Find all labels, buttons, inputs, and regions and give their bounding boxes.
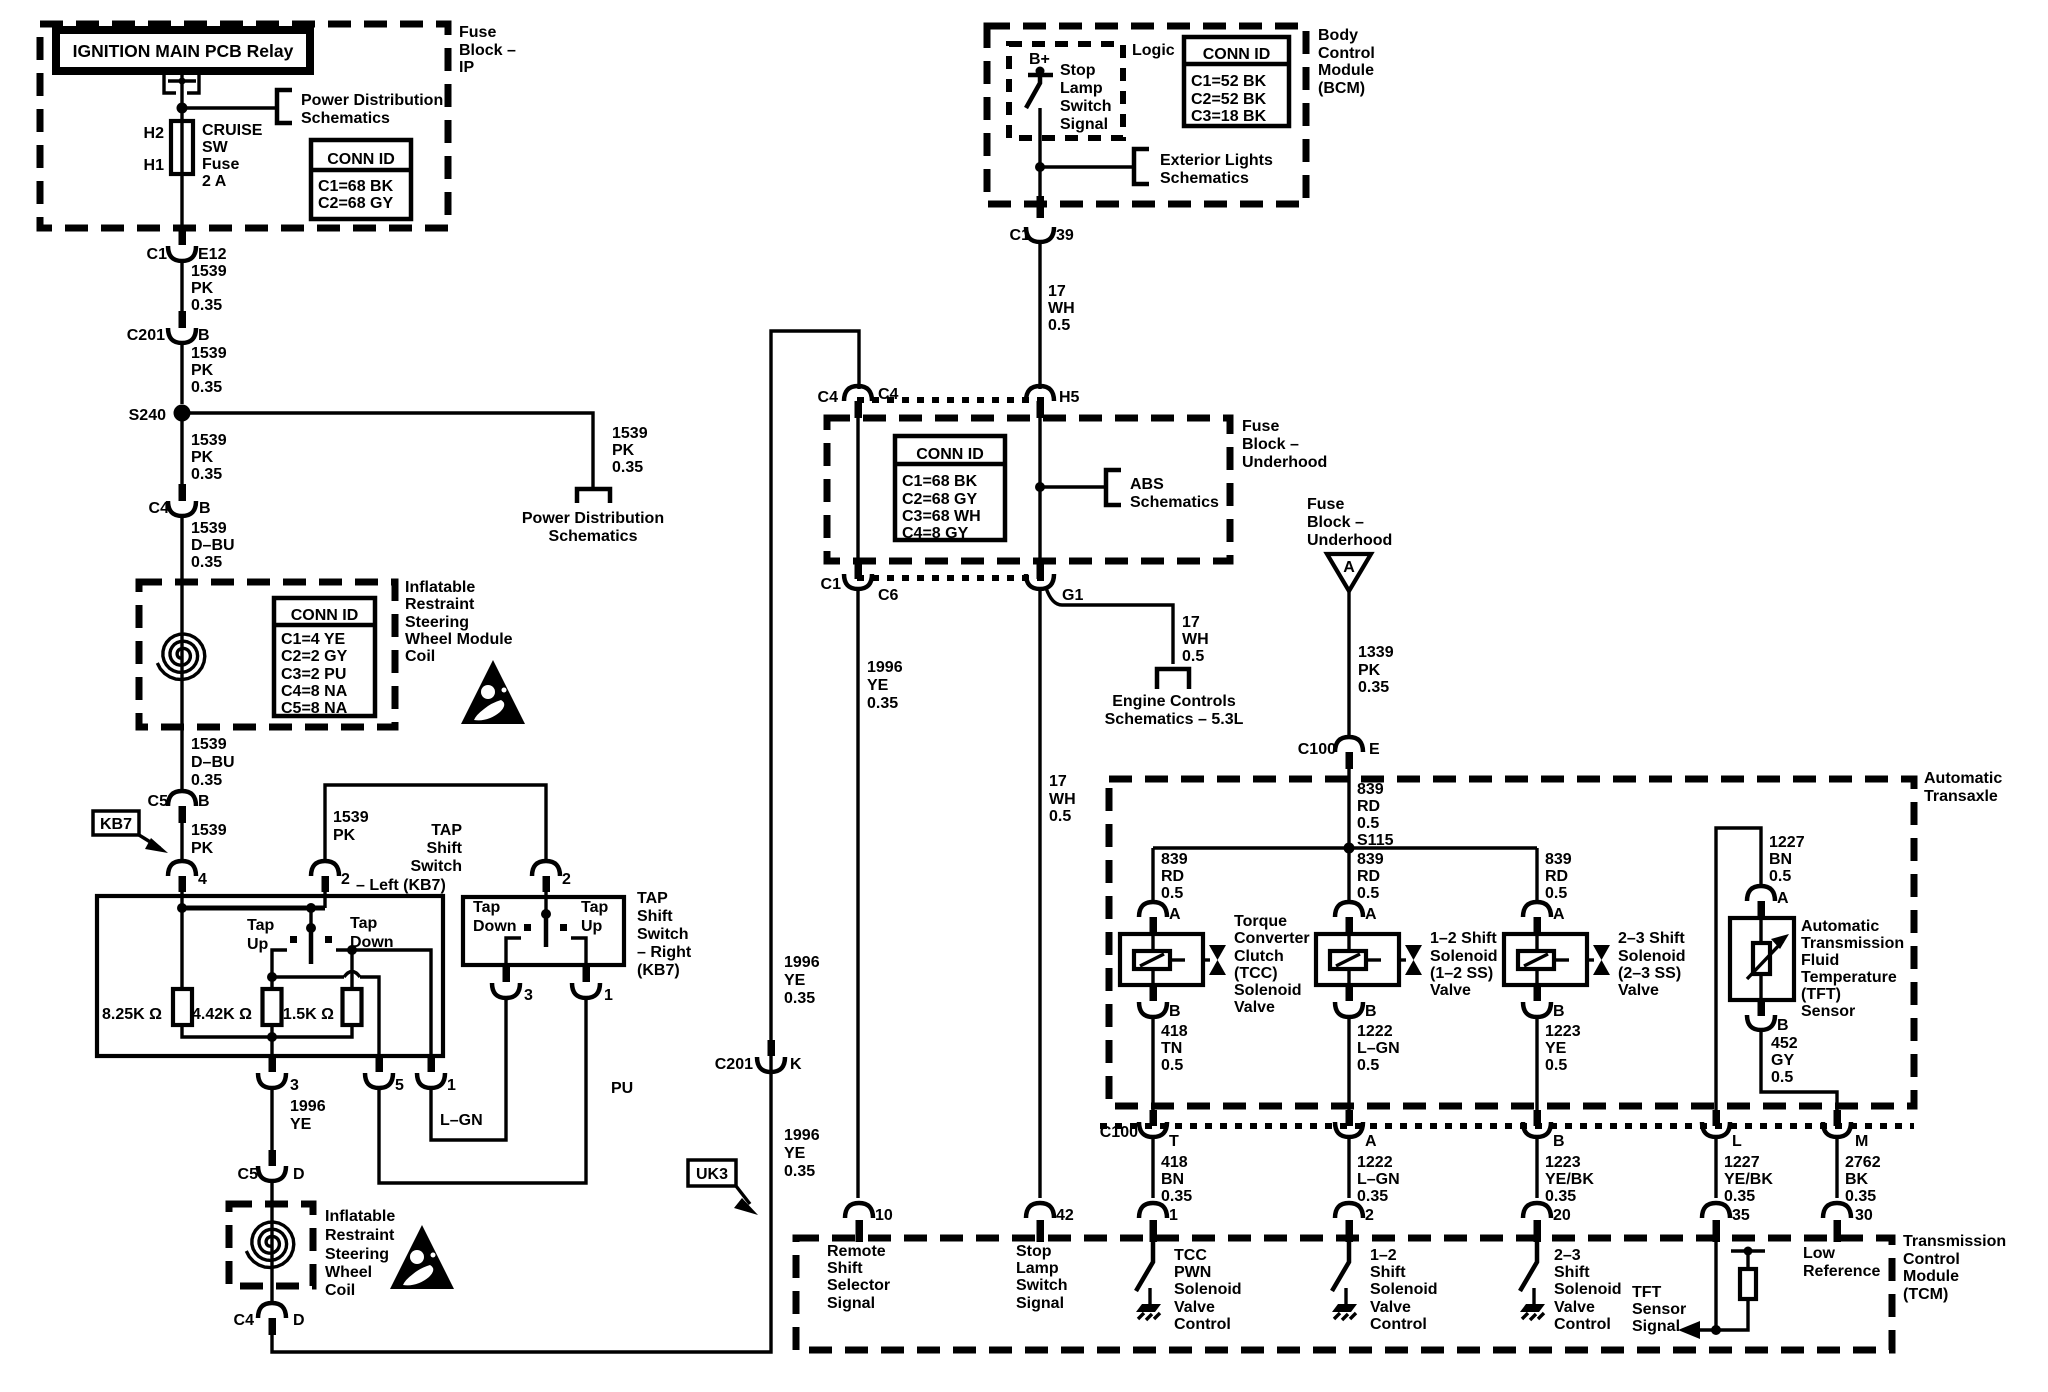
svg-text:RD: RD <box>1357 868 1380 885</box>
svg-text:CONN ID: CONN ID <box>327 151 395 168</box>
svg-text:Transmission: Transmission <box>1903 1233 2006 1250</box>
svg-text:0.5: 0.5 <box>1769 868 1791 885</box>
svg-text:1539: 1539 <box>191 736 227 753</box>
svg-text:– Right: – Right <box>637 944 692 961</box>
svg-text:Fuse: Fuse <box>1242 418 1279 435</box>
junction node <box>177 103 188 114</box>
connector pin B (2-3) <box>1534 985 1542 1001</box>
connector pin B (TFT) <box>1758 1000 1766 1016</box>
svg-text:Lamp: Lamp <box>1016 1260 1059 1277</box>
svg-text:C1=52 BK: C1=52 BK <box>1191 73 1267 90</box>
svg-text:(2–3 SS): (2–3 SS) <box>1618 965 1681 982</box>
svg-text:1539: 1539 <box>191 822 227 839</box>
wire label 1539 PK 0.35 <box>180 342 183 404</box>
svg-text:A: A <box>1777 890 1789 907</box>
svg-text:1996: 1996 <box>867 659 903 676</box>
svg-text:C100: C100 <box>1298 741 1336 758</box>
svg-text:0.5: 0.5 <box>1048 317 1070 334</box>
svg-text:D–BU: D–BU <box>191 754 235 771</box>
wire PU left pin5 to right pin1 <box>379 997 586 1183</box>
svg-text:C4: C4 <box>878 386 899 403</box>
svg-text:PK: PK <box>1358 662 1381 679</box>
TFT thermistor <box>1753 943 1770 974</box>
svg-text:A: A <box>1365 906 1377 923</box>
svg-text:10: 10 <box>875 1207 893 1224</box>
svg-text:17: 17 <box>1049 773 1067 790</box>
svg-text:C201: C201 <box>127 327 165 344</box>
svg-text:1–2 Shift: 1–2 Shift <box>1430 930 1497 947</box>
SIR warning triangle (lower) <box>390 1225 454 1289</box>
svg-text:Switch: Switch <box>1016 1277 1068 1294</box>
svg-text:Lamp: Lamp <box>1060 80 1103 97</box>
fuse F1 CRUISE SW 2A <box>171 121 193 174</box>
exterior lights schematics bracket <box>1134 149 1149 184</box>
svg-text:1227: 1227 <box>1724 1154 1760 1171</box>
wire label 17 WH 0.5 <box>1038 241 1041 389</box>
connector pin 1 <box>1139 1203 1167 1218</box>
svg-text:Coil: Coil <box>405 648 435 665</box>
svg-text:YE: YE <box>867 677 889 694</box>
svg-text:Remote: Remote <box>827 1243 886 1260</box>
SIR coil dashed box (lower) <box>229 1204 313 1286</box>
svg-text:1227: 1227 <box>1769 834 1805 851</box>
svg-text:IGNITION MAIN PCB Relay: IGNITION MAIN PCB Relay <box>73 41 294 61</box>
svg-text:KB7: KB7 <box>100 816 132 833</box>
stop lamp switch <box>1026 75 1040 108</box>
svg-text:Underhood: Underhood <box>1242 454 1327 471</box>
svg-text:0.5: 0.5 <box>1182 648 1204 665</box>
svg-text:1: 1 <box>604 987 613 1004</box>
svg-text:B: B <box>198 793 210 810</box>
svg-text:1996: 1996 <box>784 954 820 971</box>
svg-text:Control: Control <box>1554 1316 1611 1333</box>
connector C5 pin B <box>180 727 183 792</box>
svg-text:1339: 1339 <box>1358 644 1394 661</box>
svg-text:BN: BN <box>1769 851 1792 868</box>
svg-text:RD: RD <box>1161 868 1184 885</box>
svg-text:D–BU: D–BU <box>191 537 235 554</box>
connector pin 35 <box>1702 1203 1730 1218</box>
svg-text:Body: Body <box>1318 27 1358 44</box>
svg-text:C3=18 BK: C3=18 BK <box>1191 108 1267 125</box>
svg-text:Signal: Signal <box>827 1295 875 1312</box>
ground (TCC driver) <box>1136 1288 1161 1320</box>
wire to 1-2 solenoid <box>1347 848 1350 904</box>
svg-text:K: K <box>790 1056 802 1073</box>
svg-text:0.5: 0.5 <box>1161 1057 1183 1074</box>
svg-text:Signal: Signal <box>1016 1295 1064 1312</box>
svg-text:4.42K Ω: 4.42K Ω <box>192 1006 252 1023</box>
svg-text:C5=8 NA: C5=8 NA <box>281 700 348 717</box>
svg-text:H5: H5 <box>1059 389 1080 406</box>
engine controls schematics bracket <box>1157 669 1189 689</box>
SIR coil module dashed box <box>139 582 395 727</box>
svg-text:1: 1 <box>447 1077 456 1094</box>
svg-text:C1=4 YE: C1=4 YE <box>281 631 346 648</box>
svg-text:B: B <box>198 327 210 344</box>
svg-text:1539: 1539 <box>191 263 227 280</box>
splice node S240 <box>174 405 191 422</box>
svg-text:C4: C4 <box>149 500 170 517</box>
svg-text:RD: RD <box>1545 868 1568 885</box>
svg-text:B: B <box>1553 1133 1565 1150</box>
svg-text:Valve: Valve <box>1554 1299 1595 1316</box>
fuse block underhood dashed box <box>827 418 1230 561</box>
svg-text:Valve: Valve <box>1234 999 1275 1016</box>
steering wheel module coil spiral <box>157 634 205 680</box>
wire G1 branch to engine controls <box>1046 588 1173 664</box>
svg-text:CRUISE: CRUISE <box>202 122 263 139</box>
svg-text:17: 17 <box>1182 614 1200 631</box>
wire 1222 L-GN 0.5 <box>1347 1016 1350 1110</box>
svg-text:C3=68 WH: C3=68 WH <box>902 508 981 525</box>
svg-text:CONN ID: CONN ID <box>291 607 359 624</box>
connector pin 4 (tap shift switch left) <box>168 861 196 876</box>
svg-text:Tap: Tap <box>581 899 608 916</box>
1-2 driver switch <box>1332 1242 1349 1291</box>
connector pin 20 <box>1523 1203 1551 1218</box>
2-3 shift solenoid valve <box>1504 934 1610 985</box>
svg-text:C1: C1 <box>147 246 168 263</box>
svg-text:Converter: Converter <box>1234 930 1310 947</box>
connector pin 42 <box>1026 1203 1054 1218</box>
svg-text:Restraint: Restraint <box>405 596 475 613</box>
svg-text:30: 30 <box>1855 1207 1873 1224</box>
svg-text:Valve: Valve <box>1370 1299 1411 1316</box>
tap shift switch right box <box>463 897 624 965</box>
svg-text:Shift: Shift <box>637 908 673 925</box>
svg-text:Control: Control <box>1174 1316 1231 1333</box>
svg-text:YE/BK: YE/BK <box>1724 1171 1773 1188</box>
svg-text:Inflatable: Inflatable <box>325 1208 395 1225</box>
wire through coil <box>270 1180 273 1304</box>
wire L-GN left pin1 to right pin3 <box>431 997 506 1140</box>
wire 418 TN 0.5 <box>1151 1016 1154 1110</box>
svg-text:WH: WH <box>1049 791 1076 808</box>
svg-text:SW: SW <box>202 139 229 156</box>
svg-text:Automatic: Automatic <box>1801 918 1879 935</box>
connector H5 <box>1026 386 1054 401</box>
svg-text:452: 452 <box>1771 1035 1798 1052</box>
ground (1-2 driver) <box>1332 1288 1357 1320</box>
wire pin3 down 1996 YE <box>270 1087 273 1155</box>
svg-text:5: 5 <box>395 1077 404 1094</box>
svg-text:1.5K Ω: 1.5K Ω <box>283 1006 334 1023</box>
svg-text:2: 2 <box>1365 1207 1374 1224</box>
svg-text:1539: 1539 <box>191 345 227 362</box>
svg-text:0.35: 0.35 <box>191 772 222 789</box>
svg-text:C2=2 GY: C2=2 GY <box>281 648 348 665</box>
svg-text:T: T <box>1169 1133 1179 1150</box>
resistor bottom bus <box>182 1025 352 1068</box>
svg-text:C1=68 BK: C1=68 BK <box>318 178 394 195</box>
connector pin 5 (left switch) <box>376 1056 384 1072</box>
power distribution schematics bracket <box>277 90 292 123</box>
svg-text:B: B <box>199 500 211 517</box>
svg-text:Schematics: Schematics <box>301 110 390 127</box>
svg-text:IP: IP <box>459 59 474 76</box>
TFT sensor signal arrow <box>1697 1328 1716 1331</box>
svg-text:C100: C100 <box>1100 1124 1138 1141</box>
svg-text:0.35: 0.35 <box>191 297 222 314</box>
svg-text:Stop: Stop <box>1060 62 1096 79</box>
relay K1 IGNITION MAIN PCB Relay title box <box>56 30 310 71</box>
svg-text:Coil: Coil <box>325 1282 355 1299</box>
svg-text:D: D <box>293 1166 305 1183</box>
svg-text:Wheel Module: Wheel Module <box>405 631 513 648</box>
1-2 shift solenoid valve <box>1316 934 1422 985</box>
svg-text:Steering: Steering <box>325 1246 389 1263</box>
tap down stationary contact <box>336 950 431 1068</box>
svg-text:Block –: Block – <box>1307 514 1364 531</box>
svg-text:39: 39 <box>1056 227 1074 244</box>
svg-text:8.25K Ω: 8.25K Ω <box>102 1006 162 1023</box>
tap up stationary contact <box>272 950 287 977</box>
svg-text:Control: Control <box>1903 1251 1960 1268</box>
wire C4 through box <box>856 410 859 563</box>
svg-text:839: 839 <box>1545 851 1572 868</box>
svg-text:1539: 1539 <box>191 432 227 449</box>
svg-text:0.5: 0.5 <box>1545 885 1567 902</box>
svg-text:C1: C1 <box>821 576 842 593</box>
svg-text:L: L <box>1732 1133 1742 1150</box>
svg-text:Shift: Shift <box>1370 1264 1406 1281</box>
node: tap up to 4.42K and pin5 line with hop over <box>267 972 277 982</box>
connector pin B (TCC) <box>1150 985 1158 1001</box>
svg-text:C1: C1 <box>1010 227 1031 244</box>
svg-text:0.5: 0.5 <box>1545 1057 1567 1074</box>
wire C4-D to riser <box>272 331 859 1352</box>
svg-text:PK: PK <box>333 827 356 844</box>
connector C1 pin C6 <box>855 563 863 579</box>
wire loop 1227 BN <box>1716 828 1761 1110</box>
svg-text:2–3 Shift: 2–3 Shift <box>1618 930 1685 947</box>
svg-text:L–GN: L–GN <box>1357 1171 1400 1188</box>
svg-text:0.35: 0.35 <box>867 695 898 712</box>
svg-text:A: A <box>1365 1133 1377 1150</box>
fuse block triangle A <box>1327 554 1371 591</box>
ground (2-3 driver) <box>1520 1288 1545 1320</box>
svg-text:M: M <box>1855 1133 1868 1150</box>
connector C4 pin D <box>258 1303 286 1318</box>
svg-text:YE: YE <box>784 972 806 989</box>
svg-text:Signal: Signal <box>1060 116 1108 133</box>
svg-text:YE: YE <box>290 1116 312 1133</box>
svg-text:Tap: Tap <box>350 915 377 932</box>
junction node ABS <box>1035 482 1045 492</box>
svg-text:2: 2 <box>341 871 350 888</box>
svg-text:S240: S240 <box>129 407 166 424</box>
svg-text:(BCM): (BCM) <box>1318 80 1365 97</box>
svg-text:0.35: 0.35 <box>1357 1188 1388 1205</box>
svg-text:Solenoid: Solenoid <box>1430 948 1498 965</box>
connector pin 1 (right switch) <box>583 966 591 982</box>
svg-text:Shift: Shift <box>827 1260 863 1277</box>
svg-text:Block –: Block – <box>459 42 516 59</box>
TCM dashed box <box>796 1238 1892 1350</box>
svg-text:Signal: Signal <box>1632 1318 1680 1335</box>
connector C100 pin T <box>1150 1110 1158 1126</box>
svg-text:C6: C6 <box>878 587 899 604</box>
wire switch down <box>1038 108 1041 196</box>
connector pin 30 <box>1823 1203 1851 1218</box>
resistor R2 4.42K <box>263 989 282 1025</box>
svg-text:E: E <box>1369 741 1380 758</box>
connector C100 pin A <box>1346 1110 1354 1126</box>
wire C6 down to pin 10 <box>856 588 859 1198</box>
svg-text:1223: 1223 <box>1545 1023 1581 1040</box>
svg-text:ABS: ABS <box>1130 476 1164 493</box>
svg-text:BK: BK <box>1845 1171 1869 1188</box>
wire label 1539 PK 0.35 <box>180 260 183 318</box>
svg-text:1223: 1223 <box>1545 1154 1581 1171</box>
TCC driver switch <box>1136 1242 1153 1291</box>
svg-text:PK: PK <box>191 362 214 379</box>
svg-text:PWN: PWN <box>1174 1264 1211 1281</box>
connector C100 pin M <box>1834 1110 1842 1126</box>
svg-text:2: 2 <box>562 871 571 888</box>
connector C100 pin E <box>1335 737 1363 752</box>
svg-text:(TCC): (TCC) <box>1234 965 1278 982</box>
svg-text:PK: PK <box>612 442 635 459</box>
svg-text:C2=68 GY: C2=68 GY <box>318 195 393 212</box>
connector pin 3 (right switch) <box>503 966 511 982</box>
svg-text:B: B <box>1777 1017 1789 1034</box>
svg-text:Module: Module <box>1903 1268 1959 1285</box>
connector pin 2 <box>1335 1203 1363 1218</box>
svg-text:0.5: 0.5 <box>1771 1069 1793 1086</box>
svg-text:Valve: Valve <box>1174 1299 1215 1316</box>
svg-text:G1: G1 <box>1062 587 1083 604</box>
svg-text:2 A: 2 A <box>202 173 227 190</box>
svg-text:Fuse: Fuse <box>1307 496 1344 513</box>
connector C1 pin 39 <box>1037 196 1045 218</box>
svg-text:1: 1 <box>1169 1207 1178 1224</box>
internal supply bus <box>182 906 325 911</box>
svg-text:418: 418 <box>1161 1154 1188 1171</box>
svg-text:4: 4 <box>198 871 207 888</box>
splice node S115 <box>1344 843 1355 854</box>
steering wheel coil spiral (lower) <box>246 1222 293 1268</box>
svg-text:(1–2 SS): (1–2 SS) <box>1430 965 1493 982</box>
svg-text:TAP: TAP <box>431 822 462 839</box>
connector pin A (1-2) <box>1335 902 1363 917</box>
connector pin 3 (left switch) <box>269 1056 277 1072</box>
svg-text:Solenoid: Solenoid <box>1618 948 1686 965</box>
wire E to S115 <box>1347 760 1350 848</box>
wire junction to power distribution bracket <box>182 106 277 109</box>
svg-text:PK: PK <box>191 449 214 466</box>
svg-text:1539: 1539 <box>191 520 227 537</box>
svg-text:C2=68 GY: C2=68 GY <box>902 491 977 508</box>
svg-text:Schematics: Schematics <box>1160 170 1249 187</box>
svg-text:2762: 2762 <box>1845 1154 1881 1171</box>
svg-text:Shift: Shift <box>426 840 462 857</box>
svg-text:A: A <box>1343 559 1355 576</box>
svg-text:Inflatable: Inflatable <box>405 579 475 596</box>
svg-text:Transaxle: Transaxle <box>1924 788 1998 805</box>
svg-text:Restraint: Restraint <box>325 1227 395 1244</box>
svg-text:Selector: Selector <box>827 1277 890 1294</box>
connector pin 1 (left switch) <box>428 1056 436 1072</box>
wire 452 GY 0.5 <box>1761 1029 1837 1110</box>
connector G1 <box>1037 563 1045 579</box>
svg-text:YE: YE <box>784 1145 806 1162</box>
resistor R3 1.5K <box>343 989 362 1025</box>
junction node <box>1711 1325 1721 1335</box>
svg-text:Transmission: Transmission <box>1801 935 1904 952</box>
svg-text:Low: Low <box>1803 1245 1836 1262</box>
resistor R1 8.25K <box>173 989 192 1025</box>
svg-text:Wheel: Wheel <box>325 1264 372 1281</box>
svg-text:Temperature: Temperature <box>1801 969 1897 986</box>
pull-up resistor (TCM internal) <box>1716 1251 1765 1330</box>
connector row dotted line (top) <box>857 397 1044 403</box>
power distribution schematics bracket (right) <box>577 489 610 503</box>
svg-text:H1: H1 <box>144 157 165 174</box>
svg-text:Clutch: Clutch <box>1234 948 1284 965</box>
svg-text:0.35: 0.35 <box>612 459 643 476</box>
svg-text:Switch: Switch <box>637 926 689 943</box>
svg-text:Underhood: Underhood <box>1307 532 1392 549</box>
wire to TCC solenoid <box>1151 848 1154 904</box>
1539 PK jumper wire between pin2s <box>325 785 546 862</box>
svg-text:Power Distribution: Power Distribution <box>301 92 443 109</box>
svg-text:TFT: TFT <box>1632 1284 1662 1301</box>
svg-text:YE/BK: YE/BK <box>1545 1171 1594 1188</box>
svg-text:Up: Up <box>581 918 603 935</box>
BCM dashed box <box>987 26 1306 204</box>
switch armature (right box) <box>541 909 551 919</box>
connector C4 pin C4 <box>844 386 872 401</box>
ABS schematics bracket <box>1106 470 1121 505</box>
svg-text:Switch: Switch <box>410 858 462 875</box>
svg-text:839: 839 <box>1357 781 1384 798</box>
C100 dotted line <box>1100 1123 1914 1129</box>
svg-text:C4: C4 <box>818 389 839 406</box>
connector pin 10 <box>845 1203 873 1218</box>
svg-text:0.5: 0.5 <box>1049 808 1071 825</box>
svg-text:Schematics: Schematics <box>549 528 638 545</box>
svg-text:Tap: Tap <box>473 899 500 916</box>
svg-text:1996: 1996 <box>784 1127 820 1144</box>
svg-text:17: 17 <box>1048 283 1066 300</box>
wire relay to junction <box>180 88 183 121</box>
svg-text:(TFT): (TFT) <box>1801 986 1841 1003</box>
svg-text:0.5: 0.5 <box>1357 1057 1379 1074</box>
svg-text:839: 839 <box>1161 851 1188 868</box>
svg-text:1222: 1222 <box>1357 1023 1393 1040</box>
svg-text:0.35: 0.35 <box>1845 1188 1876 1205</box>
svg-text:C4=8 GY: C4=8 GY <box>902 525 969 542</box>
svg-text:L–GN: L–GN <box>440 1112 483 1129</box>
svg-text:0.35: 0.35 <box>191 379 222 396</box>
svg-text:Exterior Lights: Exterior Lights <box>1160 152 1273 169</box>
KB7 reference label <box>93 811 139 835</box>
svg-text:Sensor: Sensor <box>1632 1301 1686 1318</box>
wire 1223 YE 0.5 <box>1535 1016 1538 1110</box>
tap shift switch left box <box>97 896 443 1056</box>
svg-text:(TCM): (TCM) <box>1903 1286 1948 1303</box>
connector C100 pin L <box>1713 1110 1721 1126</box>
svg-text:839: 839 <box>1357 851 1384 868</box>
wire G1 down to pin 42 <box>1038 588 1041 1198</box>
svg-text:A: A <box>1553 906 1565 923</box>
svg-text:20: 20 <box>1553 1207 1571 1224</box>
svg-text:L–GN: L–GN <box>1357 1040 1400 1057</box>
connector pin A (2-3) <box>1523 902 1551 917</box>
CONN ID table (coil) <box>274 598 375 717</box>
